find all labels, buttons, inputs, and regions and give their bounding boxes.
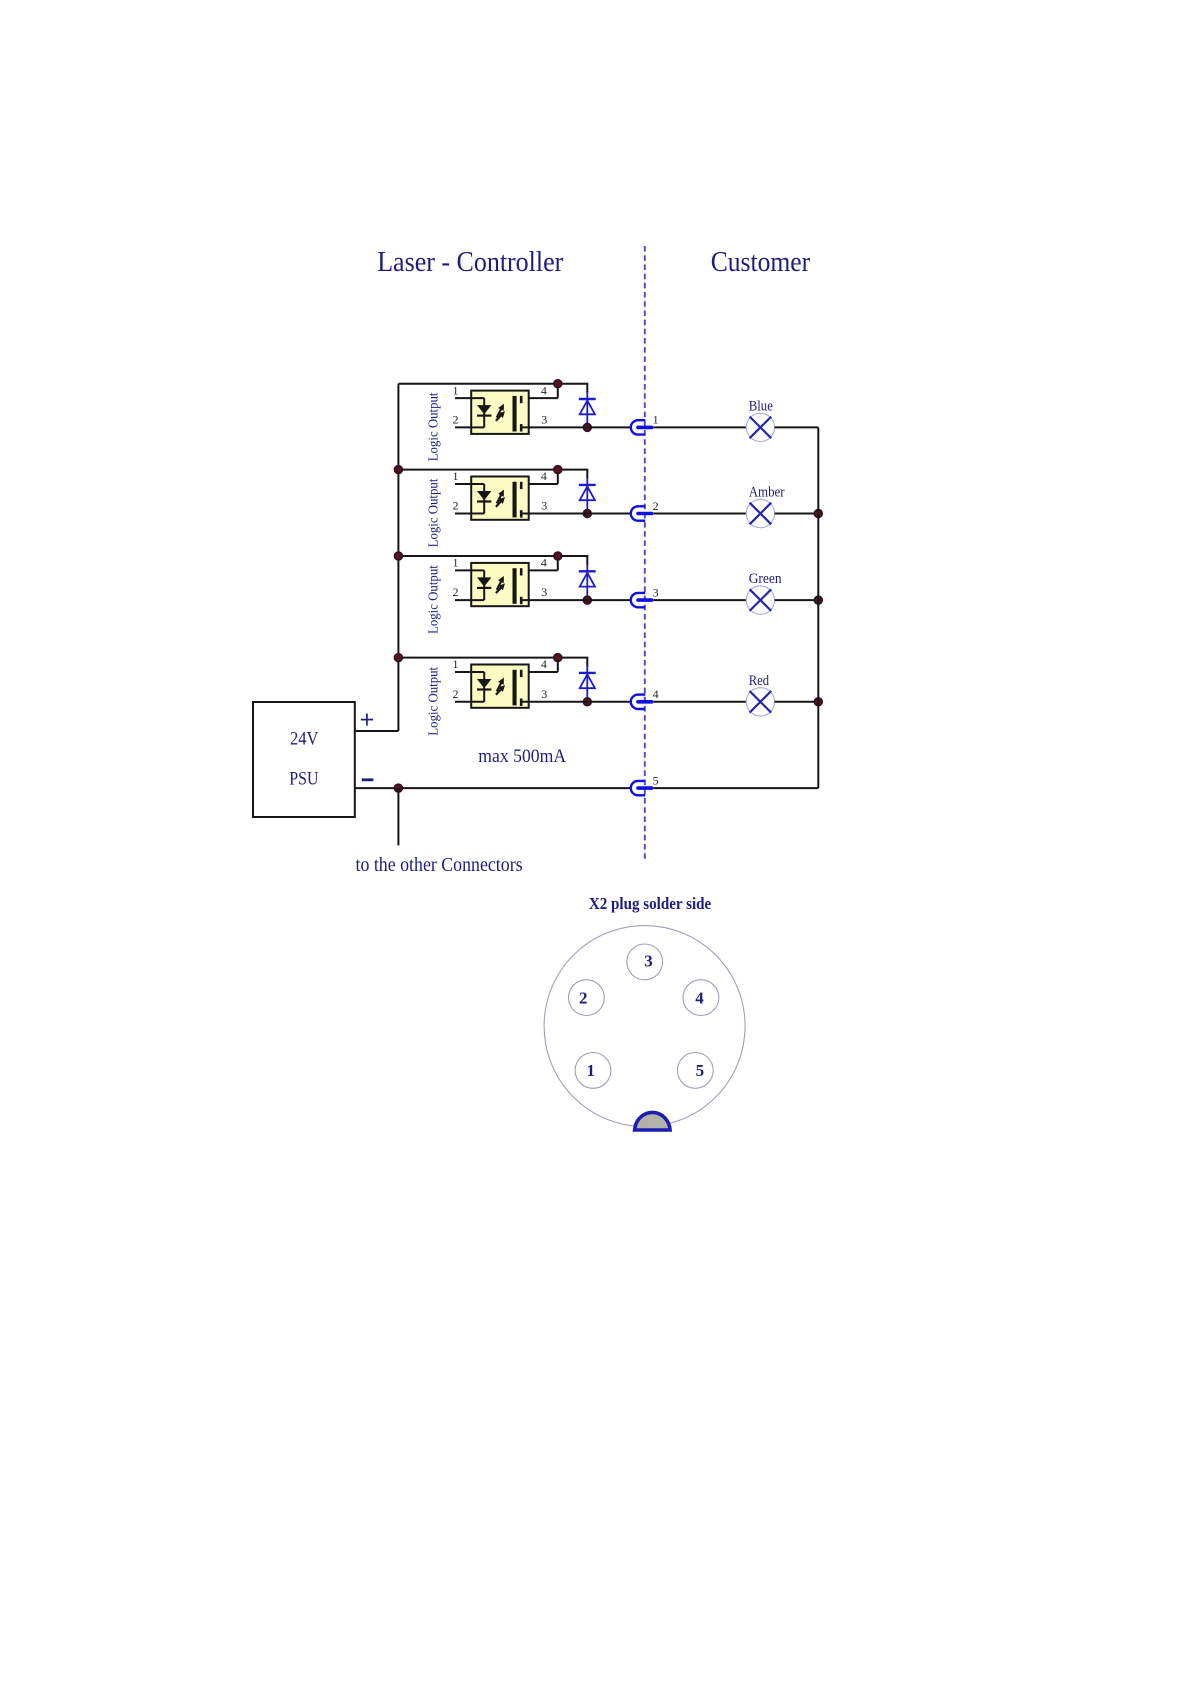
wire: channel 4 output row (pin3 to connector) — [521, 701, 630, 703]
junction on right bus (channel 2) — [814, 510, 822, 518]
wire: channel 1 pin4 riser — [521, 384, 558, 398]
svg-text:3: 3 — [541, 412, 547, 426]
junction on right bus (channel 4) — [814, 698, 822, 706]
junction on left bus (channel 2) — [395, 466, 403, 474]
node: channel 3 supply junction — [554, 552, 562, 560]
wire: channel 1 output row (pin3 to connector) — [521, 426, 630, 428]
X2 plug pin 1 — [575, 1053, 611, 1089]
optocoupler U3 — [455, 563, 529, 606]
X2 plug key notch — [635, 1112, 671, 1130]
wire: lamp Green to right bus — [775, 599, 819, 601]
svg-text:5: 5 — [696, 1061, 705, 1080]
wire: channel 4 diode drop — [586, 658, 588, 667]
wire: channel 3 supply top horizontal — [398, 555, 588, 557]
node: channel 4 supply junction — [554, 654, 562, 662]
svg-text:Logic Output: Logic Output — [425, 478, 440, 547]
svg-text:3: 3 — [541, 585, 547, 599]
node: channel 2 supply junction — [554, 466, 562, 474]
X2 plug pin 2 — [569, 980, 605, 1016]
svg-text:3: 3 — [644, 951, 653, 970]
svg-text:2: 2 — [453, 499, 459, 513]
junction on right bus (channel 3) — [814, 596, 822, 604]
svg-text:to the other Connectors: to the other Connectors — [356, 854, 523, 876]
flyback diode D2 — [579, 478, 596, 514]
plus terminal marker — [361, 714, 373, 726]
wire: lamp Red to right bus — [775, 701, 819, 703]
wire: customer return bus vertical — [817, 427, 819, 788]
connector X2 pin 4 — [631, 695, 652, 709]
X2 plug pin 3 — [627, 944, 663, 980]
wire: channel 2 diode drop — [586, 470, 588, 479]
node: channel 4 output junction — [583, 698, 591, 706]
node: channel 1 output junction — [583, 424, 591, 432]
optocoupler U2 — [455, 477, 529, 520]
wire: channel 2 output row (pin3 to connector) — [521, 513, 630, 515]
wire: 0V drop to other connectors — [397, 788, 399, 845]
wire: channel 4 pin4 riser — [521, 658, 558, 672]
wire: +24V left bus vertical — [397, 384, 399, 731]
interface separator (dashed line) — [644, 246, 646, 862]
svg-text:3: 3 — [653, 585, 659, 599]
wire: lamp Amber to right bus — [775, 513, 819, 515]
wire: PSU minus row (0V) — [355, 787, 819, 789]
connector X2 pin 1 — [631, 420, 652, 434]
wire: lamp Blue to right bus — [775, 426, 819, 428]
wire: connector 4 to lamp — [653, 701, 746, 703]
svg-text:24V: 24V — [290, 729, 319, 750]
svg-text:3: 3 — [541, 499, 547, 513]
svg-text:1: 1 — [453, 657, 459, 671]
svg-text:4: 4 — [541, 383, 547, 397]
wire: channel 3 diode drop — [586, 556, 588, 565]
wire: connector 3 to lamp — [653, 599, 746, 601]
flyback diode D1 — [579, 392, 596, 428]
svg-text:Amber: Amber — [749, 485, 785, 501]
svg-text:1: 1 — [453, 556, 459, 570]
svg-text:2: 2 — [453, 412, 459, 426]
wire: channel 1 supply top horizontal — [398, 383, 588, 385]
wire: channel 1 diode drop — [586, 384, 588, 393]
svg-text:4: 4 — [653, 687, 659, 701]
svg-text:4: 4 — [541, 556, 547, 570]
junction on left bus (channel 4) — [395, 654, 403, 662]
svg-text:X2 plug solder side: X2 plug solder side — [589, 894, 712, 913]
svg-text:Blue: Blue — [749, 398, 773, 414]
flyback diode D3 — [579, 564, 596, 600]
power supply 24V PSU box — [253, 702, 355, 817]
svg-text:Logic Output: Logic Output — [425, 392, 440, 461]
connector X2 pin 2 — [631, 506, 652, 520]
X2 plug pin 4 — [683, 980, 719, 1016]
connector X2 pin 3 — [631, 593, 652, 607]
wire: channel 3 pin4 riser — [521, 556, 558, 570]
wire: channel 2 supply top horizontal — [398, 469, 588, 471]
flyback diode D4 — [579, 666, 596, 702]
svg-text:PSU: PSU — [289, 768, 318, 789]
lamp Red (circle-X) — [746, 688, 774, 716]
optocoupler U4 — [455, 665, 529, 708]
lamp Green (circle-X) — [746, 586, 774, 614]
svg-text:Laser - Controller: Laser - Controller — [377, 246, 563, 278]
lamp Blue (circle-X) — [746, 413, 774, 441]
connector X2 pin 5 — [631, 781, 652, 795]
svg-text:2: 2 — [453, 585, 459, 599]
svg-text:3: 3 — [541, 687, 547, 701]
X2 plug pin 5 — [677, 1053, 713, 1089]
wire: connector 1 to lamp — [653, 426, 746, 428]
svg-text:max 500mA: max 500mA — [478, 746, 566, 767]
svg-text:4: 4 — [695, 988, 704, 1007]
X2 plug body circle — [544, 926, 745, 1127]
svg-text:Customer: Customer — [711, 246, 811, 278]
svg-text:4: 4 — [541, 469, 547, 483]
wire: channel 3 output row (pin3 to connector) — [521, 599, 630, 601]
wire: channel 2 pin4 riser — [521, 470, 558, 484]
wire: channel 4 supply top horizontal — [398, 657, 588, 659]
wire: PSU plus to bus — [355, 730, 399, 732]
minus terminal marker — [362, 778, 374, 781]
svg-text:4: 4 — [541, 657, 547, 671]
node: channel 2 output junction — [583, 510, 591, 518]
svg-text:5: 5 — [653, 773, 659, 787]
junction on left bus (channel 3) — [395, 552, 403, 560]
svg-text:1: 1 — [653, 413, 659, 427]
junction: 0V branch — [395, 784, 403, 792]
svg-text:2: 2 — [453, 687, 459, 701]
wire: connector 2 to lamp — [653, 513, 746, 515]
svg-text:Green: Green — [749, 571, 783, 587]
svg-text:1: 1 — [587, 1061, 596, 1080]
svg-text:Red: Red — [749, 673, 770, 689]
optocoupler U1 — [455, 391, 529, 434]
node: channel 1 supply junction — [554, 380, 562, 388]
svg-text:1: 1 — [453, 469, 459, 483]
svg-text:Logic Output: Logic Output — [425, 667, 440, 736]
svg-text:2: 2 — [579, 988, 588, 1007]
lamp Amber (circle-X) — [746, 499, 774, 527]
svg-text:2: 2 — [653, 499, 659, 513]
node: channel 3 output junction — [583, 596, 591, 604]
svg-text:1: 1 — [453, 383, 459, 397]
svg-text:Logic Output: Logic Output — [425, 565, 440, 634]
